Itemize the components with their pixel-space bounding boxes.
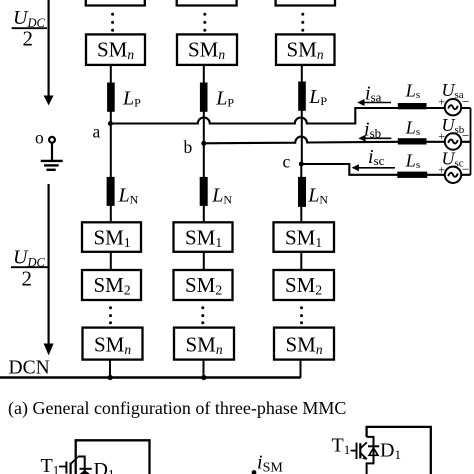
node dots ellipsis leg1 top <box>111 13 114 32</box>
submodule SMn (lower arm) leg1 <box>83 328 143 360</box>
svg-text:Ls: Ls <box>405 118 420 139</box>
svg-text:SMn: SMn <box>97 38 134 63</box>
wire upper DC rail line with arrow (left) <box>44 0 54 105</box>
source Usc <box>445 167 461 183</box>
svg-text:a: a <box>93 121 101 141</box>
wire leg3 Lp to node c <box>301 111 303 165</box>
svg-text:SM2: SM2 <box>285 273 322 298</box>
submodule SMn (upper arm) leg3 <box>276 34 335 65</box>
source Usb <box>445 133 461 149</box>
svg-text:−: − <box>462 128 469 143</box>
svg-text:SMn: SMn <box>287 38 324 63</box>
node dots ellipsis leg1 lower <box>109 306 112 324</box>
transistor T1 right body bar <box>359 443 361 458</box>
submodule SM (top partial box) leg2 <box>177 0 237 6</box>
transistor T1 right emitter arrowhead <box>362 456 367 460</box>
transistor T1 left gate lead <box>59 466 66 468</box>
svg-text:LP: LP <box>122 87 141 109</box>
svg-text:−: − <box>462 94 469 109</box>
wire phase c: node c, jog down to source row <box>301 164 470 175</box>
submodule SM1 leg2 <box>174 222 233 252</box>
svg-text:T1: T1 <box>332 434 351 457</box>
wire SM-right top loop <box>367 427 431 474</box>
svg-text:LP: LP <box>308 86 327 108</box>
node dots ellipsis leg3 top <box>301 13 304 32</box>
svg-text:SMn: SMn <box>186 333 223 358</box>
arrow i_sb <box>358 135 391 142</box>
inductor Ls phase a <box>398 103 427 109</box>
submodule SM1 leg3 <box>274 222 335 252</box>
svg-text:SM2: SM2 <box>94 273 131 298</box>
wire leg3 SM1 to SM2 <box>300 252 302 270</box>
node O ground terminal <box>49 137 55 160</box>
transistor T1 left body bar <box>69 463 71 474</box>
svg-text:D1: D1 <box>380 439 401 462</box>
submodule SM (top partial box) leg1 <box>86 0 145 6</box>
svg-text:LN: LN <box>307 184 328 206</box>
wire leg1 Lp to node a <box>110 112 112 124</box>
svg-text:c: c <box>283 152 291 172</box>
wire right neutral bus <box>470 108 472 175</box>
wire leg2 node b to Ln <box>203 143 205 177</box>
node dots ellipsis leg3 lower <box>300 306 303 324</box>
submodule SM1 leg1 <box>82 222 141 252</box>
inductor Lp leg3 <box>298 82 306 111</box>
svg-text:iSM: iSM <box>257 452 283 474</box>
svg-text:LN: LN <box>211 184 232 206</box>
wire phase a: node a to step, hops over legs 2 and 3 <box>110 108 470 124</box>
svg-text:2: 2 <box>22 267 33 291</box>
node dots ellipsis leg2 top <box>203 13 206 32</box>
svg-text:SM1: SM1 <box>94 225 131 250</box>
label UDC/2 upper <box>12 7 47 51</box>
svg-text:D1: D1 <box>94 459 115 474</box>
wire phase b: node b to source row, hop over leg 3 <box>204 137 471 144</box>
inductor Lp leg1 <box>107 83 115 112</box>
svg-text:isc: isc <box>368 146 385 168</box>
svg-text:+: + <box>438 162 445 176</box>
wire SM-left top loop <box>76 440 150 474</box>
svg-text:Ls: Ls <box>405 81 420 102</box>
node a <box>108 121 113 126</box>
svg-text:isb: isb <box>364 118 381 140</box>
svg-text:SM1: SM1 <box>185 225 222 250</box>
submodule SMn (lower arm) leg3 <box>274 328 334 360</box>
svg-text:SM2: SM2 <box>185 273 222 298</box>
ground <box>41 161 63 170</box>
wire leg2 Lp to node b <box>203 112 205 144</box>
svg-text:SMn: SMn <box>286 333 323 358</box>
node c <box>299 162 304 167</box>
transistor T1 left gate bar <box>65 462 67 474</box>
wire leg2 SM1 to SM2 <box>203 252 205 270</box>
svg-text:LN: LN <box>118 184 139 206</box>
wire leg3 SMn to DCN bus <box>300 360 302 378</box>
label UDC/2 lower <box>11 247 50 291</box>
svg-text:SMn: SMn <box>94 333 131 358</box>
wire leg3 SMn to Lp <box>301 65 303 83</box>
svg-text:SM1: SM1 <box>285 225 322 250</box>
transistor T1 right collector diagonal <box>360 442 367 448</box>
transistor T1 right gate lead <box>351 450 357 452</box>
svg-text:2: 2 <box>23 27 34 51</box>
inductor Ln leg2 <box>200 177 208 206</box>
wire leg3 node c to Ln <box>300 164 302 177</box>
wire leg2 Ln to SM1 <box>203 206 205 223</box>
svg-text:(a) General configuration of t: (a) General configuration of three-phase… <box>8 398 346 419</box>
wire DCN bus <box>0 376 301 379</box>
svg-text:LP: LP <box>215 87 234 109</box>
wire lower DC rail line with arrow (left) <box>44 184 54 355</box>
submodule SM2 leg1 <box>82 270 141 300</box>
diode D1 left triangle (partial) <box>80 470 91 474</box>
node dots ellipsis leg2 lower <box>201 306 204 324</box>
svg-text:isa: isa <box>365 83 382 105</box>
submodule SMn (upper arm) leg2 <box>177 34 237 65</box>
submodule SM2 leg3 <box>274 270 335 300</box>
wire leg1 SMn to Lp <box>110 65 112 83</box>
node leg1-DCN junction <box>108 375 113 380</box>
diode D1 left cathode bar <box>80 468 92 470</box>
submodule SMn (upper arm) leg1 <box>86 34 145 65</box>
svg-text:T1: T1 <box>41 455 60 474</box>
diode D1 right cathode bar <box>368 445 379 447</box>
svg-text:o: o <box>35 128 44 148</box>
svg-text:b: b <box>184 137 193 157</box>
node b <box>201 141 206 146</box>
svg-text:+: + <box>438 129 445 143</box>
wire leg1 SMn to DCN bus <box>109 360 111 378</box>
arrow i_sc <box>352 164 395 171</box>
svg-text:−: − <box>462 162 469 177</box>
transistor T1 right emitter diagonal <box>360 453 367 460</box>
node leg2-DCN junction <box>201 375 206 380</box>
inductor Ln leg1 <box>107 177 115 206</box>
svg-text:+: + <box>438 95 445 109</box>
wire SM-right diode branch <box>367 437 374 474</box>
wire leg1 node a to Ln <box>110 124 112 178</box>
source Usa <box>445 99 461 115</box>
wire leg1 SM1 to SM2 <box>110 252 112 270</box>
arrow i_sa <box>357 99 391 106</box>
wire SM-left diode branch jog <box>78 457 85 474</box>
svg-text:DCN: DCN <box>9 358 50 379</box>
transistor T1 left collector diagonal <box>71 457 78 464</box>
diode D1 right triangle <box>369 448 378 455</box>
node i_SM arrow dot (partial) <box>252 470 257 474</box>
wire leg3 Ln to SM1 <box>300 207 302 222</box>
transistor T1 right gate bar <box>356 443 358 459</box>
inductor Lp leg2 <box>200 83 208 112</box>
wire leg2 SMn to DCN bus <box>203 360 205 378</box>
inductor Ls phase c <box>397 172 427 178</box>
submodule SM2 leg2 <box>174 270 233 300</box>
svg-text:Ls: Ls <box>405 151 420 172</box>
wire leg1 Ln to SM1 <box>110 206 112 223</box>
submodule SM (top partial box) leg3 <box>276 0 335 6</box>
submodule SMn (lower arm) leg2 <box>174 328 234 360</box>
svg-text:SMn: SMn <box>188 38 225 63</box>
inductor Ls phase b <box>398 138 427 144</box>
inductor Ln leg3 <box>298 177 306 207</box>
wire leg2 SMn to Lp <box>203 65 205 83</box>
